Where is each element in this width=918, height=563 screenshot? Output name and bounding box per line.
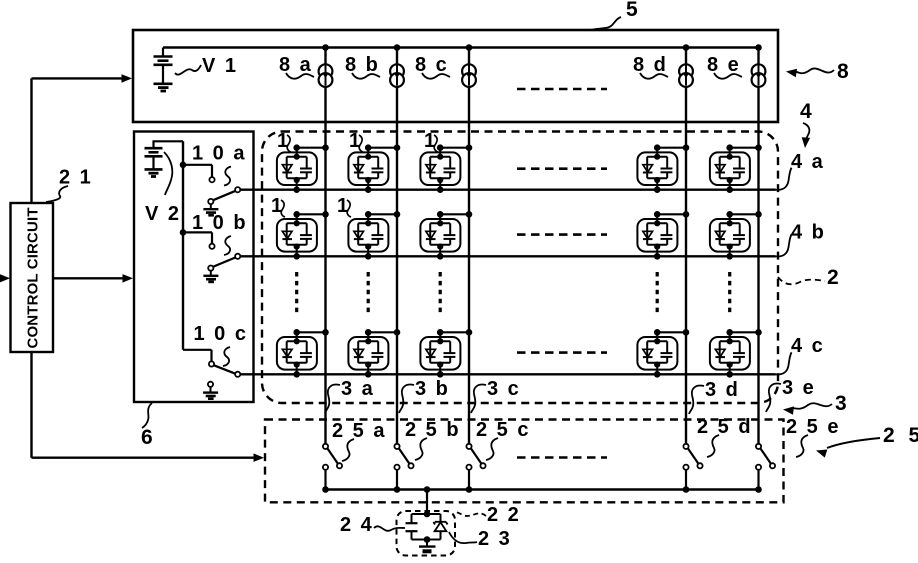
switch 25b (open): [394, 444, 414, 493]
label 8a: [279, 54, 314, 79]
zener diode 23: [434, 514, 448, 540]
label 2: [778, 266, 841, 289]
switch 25c (open): [466, 444, 486, 493]
switch 10b (SPDT, thrown to ground): [180, 229, 241, 271]
svg-text:6: 6: [141, 426, 155, 449]
label 8e: [707, 54, 742, 79]
label V2: [145, 152, 181, 225]
label 21: [46, 167, 93, 203]
wire: control to box 5: [32, 74, 133, 203]
clamp internal node (top): [424, 511, 431, 518]
ellipsis dots (matrix column): [439, 272, 442, 313]
label 4 with arrow: [800, 100, 814, 148]
svg-text:3 c: 3 c: [487, 378, 521, 400]
wire: row line / scan line 4b: [240, 255, 776, 257]
ellipsis dots (matrix column): [367, 272, 370, 313]
label 22: [456, 504, 521, 526]
wire: control to box 25: [32, 352, 265, 462]
label V1: [175, 55, 238, 77]
svg-text:2 5 a: 2 5 a: [332, 420, 386, 442]
svg-text:4 a: 4 a: [791, 151, 825, 173]
svg-text:3 a: 3 a: [341, 378, 375, 400]
memory cell 1 at row 4a col 3d: [637, 144, 689, 193]
wire: V2 to scan bus: [153, 140, 184, 142]
ground of V2: [145, 169, 163, 176]
memory cell 1 at row 4a col 3c: [420, 144, 472, 193]
label 1 (cell designator): [349, 130, 363, 152]
label 25a: [332, 420, 386, 461]
svg-text:3 d: 3 d: [705, 379, 740, 401]
current source 8a: [319, 64, 333, 87]
current source 8d: [679, 64, 693, 87]
ellipsis dots (matrix column): [295, 272, 298, 313]
label 4c: [776, 335, 825, 374]
label 10a: [192, 143, 246, 186]
label 8 with arrow to box 5: [786, 60, 851, 83]
label 25 with arrow: [816, 424, 918, 458]
wire: column line / data line 3d: [685, 48, 687, 444]
switch 25d (open): [683, 444, 703, 493]
memory cell 1 at row 4b col 3a: [277, 211, 329, 260]
svg-text:2 3: 2 3: [478, 528, 512, 550]
svg-text:2 5 e: 2 5 e: [786, 416, 840, 438]
svg-text:3 e: 3 e: [782, 377, 816, 399]
memory cell 1 at row 4c col 3b: [348, 329, 400, 378]
wire: common data bus: [326, 488, 759, 490]
junction on V1 bus: [394, 44, 401, 51]
svg-text:3 b: 3 b: [415, 378, 450, 400]
label 3 with arrow: [783, 392, 849, 415]
svg-text:4: 4: [800, 100, 814, 123]
svg-text:8 c: 8 c: [415, 54, 449, 76]
label 1 (cell designator): [424, 130, 438, 152]
memory cell 1 at row 4b col 3c: [420, 211, 472, 260]
switch 10c (SPDT, thrown to V2): [183, 350, 240, 387]
label 25e: [786, 416, 840, 457]
svg-text:2: 2: [827, 266, 841, 289]
memory cell 1 at row 4b col 3d: [637, 211, 689, 260]
label 25d: [697, 416, 753, 457]
ellipsis dashes (matrix row): [517, 233, 607, 236]
input arrow into control circuit: [0, 274, 10, 283]
label 3e (column line): [766, 377, 816, 412]
label 10b: [192, 212, 248, 255]
label 8b: [345, 54, 380, 79]
label 4a: [776, 151, 825, 190]
label 1 (cell designator): [337, 195, 351, 217]
svg-text:2 4: 2 4: [340, 514, 374, 536]
svg-text:1: 1: [271, 195, 282, 217]
label 3b (column line): [399, 378, 450, 413]
ground of clamp: [419, 540, 436, 552]
label 4b: [776, 222, 826, 257]
svg-text:4 c: 4 c: [791, 335, 825, 357]
svg-text:1 0 b: 1 0 b: [192, 212, 248, 234]
svg-text:8 a: 8 a: [279, 54, 313, 76]
svg-text:4 b: 4 b: [791, 222, 826, 244]
svg-text:8 e: 8 e: [707, 54, 741, 76]
svg-text:V 1: V 1: [202, 55, 238, 77]
label 8c: [415, 54, 450, 79]
svg-text:2 1: 2 1: [59, 167, 93, 189]
ground of switch 10b: [203, 271, 218, 282]
ellipsis dashes (box 5): [517, 88, 607, 91]
current source 8b: [390, 64, 404, 87]
scan driver box 6: [134, 132, 254, 403]
svg-text:5: 5: [626, 0, 640, 21]
wire: row line / scan line 4a: [240, 188, 776, 190]
current source 8c: [462, 64, 476, 87]
clamp dashed box 22: [397, 511, 456, 556]
control circuit box 21: [11, 203, 54, 352]
wire: column line / data line 3b: [396, 48, 398, 444]
svg-text:8: 8: [837, 60, 851, 83]
svg-text:2 5 d: 2 5 d: [697, 416, 753, 438]
current source 8e: [752, 64, 766, 87]
svg-text:1: 1: [277, 130, 288, 152]
wire: control to box 6: [53, 274, 133, 283]
svg-text:2 5 c: 2 5 c: [476, 419, 530, 441]
memory cell 1 at row 4c col 3c: [420, 329, 472, 378]
junction on V1 bus: [322, 44, 329, 51]
junction on V1 bus: [466, 44, 473, 51]
wire: clamp top rail: [412, 513, 441, 515]
capacitor 24: [406, 514, 418, 540]
memory cell 1 at row 4a col 3b: [348, 144, 400, 193]
label 3a (column line): [325, 378, 375, 413]
svg-text:8 b: 8 b: [345, 54, 380, 76]
memory cell 1 at row 4a col 3e: [710, 144, 762, 193]
power-supply box 5: [133, 30, 778, 122]
label 3c (column line): [471, 378, 521, 413]
clamp internal node (bottom): [424, 536, 431, 543]
label 5: [590, 0, 640, 30]
label 25c: [476, 419, 530, 460]
memory cell 1 at row 4c col 3a: [277, 329, 329, 378]
label 25b: [405, 419, 461, 460]
memory cell 1 at row 4c col 3d: [637, 329, 689, 378]
svg-text:1: 1: [424, 130, 435, 152]
ground of switch 10c: [203, 387, 218, 399]
svg-text:V 2: V 2: [145, 203, 181, 225]
junction on V1 bus: [683, 44, 690, 51]
label 6: [141, 403, 155, 449]
ellipsis dashes (matrix row): [517, 167, 607, 170]
svg-text:CONTROL CIRCUIT: CONTROL CIRCUIT: [25, 207, 42, 348]
ellipsis dots (matrix column): [728, 272, 731, 313]
label 24: [340, 514, 405, 536]
battery V1: [154, 48, 173, 84]
svg-text:1: 1: [349, 130, 360, 152]
memory cell 1 at row 4b col 3e: [710, 211, 762, 260]
memory cell 1 at row 4a col 3a: [277, 144, 329, 193]
wire: row line / scan line 4c: [240, 373, 776, 375]
wire: V1 supply bus: [163, 46, 759, 48]
label 3d (column line): [689, 379, 740, 414]
wire: bus to clamp 22: [426, 490, 428, 515]
label 1 (cell designator): [277, 130, 291, 152]
data switch dashed box 25: [265, 420, 784, 503]
svg-text:2 5 b: 2 5 b: [405, 419, 461, 441]
ellipsis dots (matrix column): [656, 272, 659, 313]
junction on V1 bus: [755, 44, 762, 51]
switch 25a (open): [322, 444, 342, 493]
ellipsis dashes (box 25): [517, 456, 607, 459]
svg-text:3: 3: [835, 392, 849, 415]
switch 25e (open): [755, 444, 775, 493]
memory cell 1 at row 4b col 3b: [348, 211, 400, 260]
wire: clamp bottom rail: [412, 539, 441, 541]
ground of switch 10a: [203, 204, 218, 215]
junction on data bus: [424, 486, 431, 493]
pixel matrix dashed box 2: [262, 132, 778, 404]
svg-text:1: 1: [337, 195, 348, 217]
wire: scan bus vertical: [182, 141, 184, 349]
ground of V1: [154, 84, 173, 91]
svg-text:8 d: 8 d: [633, 54, 668, 76]
ellipsis dashes (matrix row): [517, 351, 607, 354]
label 1 (cell designator): [271, 195, 285, 217]
label 10c: [194, 323, 248, 366]
switch 10a (SPDT, thrown to ground): [180, 162, 241, 205]
svg-text:2 5: 2 5: [883, 424, 918, 447]
wire: column line / data line 3c: [468, 48, 470, 444]
battery V2: [145, 141, 163, 168]
memory cell 1 at row 4c col 3e: [710, 329, 762, 378]
wire: column line / data line 3e: [757, 48, 759, 444]
wire: column line / data line 3a: [324, 48, 326, 444]
label 23: [449, 528, 512, 550]
label 8d: [633, 54, 668, 79]
svg-text:1 0 a: 1 0 a: [192, 143, 246, 165]
svg-text:2 2: 2 2: [487, 504, 521, 526]
svg-text:1 0 c: 1 0 c: [194, 323, 248, 345]
